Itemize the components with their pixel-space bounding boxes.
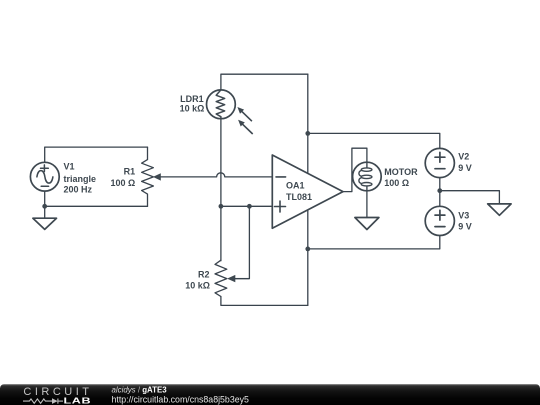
svg-text:LDR1: LDR1 xyxy=(180,94,204,104)
svg-text:V1: V1 xyxy=(64,162,75,172)
svg-text:100 Ω: 100 Ω xyxy=(110,178,135,188)
svg-text:LAB: LAB xyxy=(64,397,92,405)
svg-text:R2: R2 xyxy=(198,270,210,280)
svg-text:9 V: 9 V xyxy=(458,163,472,173)
svg-text:V3: V3 xyxy=(458,210,469,220)
svg-text:triangle: triangle xyxy=(64,174,97,184)
svg-text:10 kΩ: 10 kΩ xyxy=(185,280,210,290)
svg-text:http://circuitlab.com/cns8a8j5: http://circuitlab.com/cns8a8j5b3ey5 xyxy=(112,395,250,405)
svg-text:R1: R1 xyxy=(124,167,136,177)
svg-text:OA1: OA1 xyxy=(286,181,305,191)
svg-text:TL081: TL081 xyxy=(286,192,312,202)
svg-text:200 Hz: 200 Hz xyxy=(64,184,93,194)
svg-text:9 V: 9 V xyxy=(458,222,472,232)
svg-text:alcidys / gATE3: alcidys / gATE3 xyxy=(112,386,168,395)
svg-text:V2: V2 xyxy=(458,152,469,162)
svg-text:10 kΩ: 10 kΩ xyxy=(180,104,205,114)
svg-text:MOTOR: MOTOR xyxy=(384,167,418,177)
svg-text:100 Ω: 100 Ω xyxy=(384,178,409,188)
